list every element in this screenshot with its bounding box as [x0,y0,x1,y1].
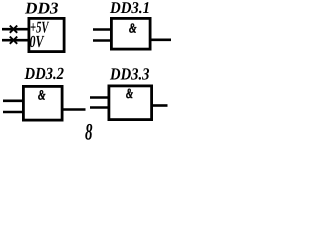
wire DD3.2 input 2 [3,111,23,114]
wire DD3.1 input 1 [93,28,111,31]
svg-text:0V: 0V [30,32,45,51]
svg-text:&: & [126,87,133,102]
wire DD3.3 input 2 [90,106,109,109]
wire DD3 pin +5V [2,28,29,31]
AND gate DD3.2 [23,86,62,120]
svg-text:&: & [129,20,137,35]
AND gate DD3.1 [111,18,150,49]
svg-text:&: & [38,88,46,103]
wire DD3 pin 0V [2,39,29,42]
svg-text:8: 8 [85,120,93,144]
wire DD3.2 output [63,108,86,111]
AND gate DD3.3 [109,86,152,120]
svg-text:DD3.2: DD3.2 [24,64,65,83]
wire DD3.3 input 1 [90,96,109,99]
wire DD3.2 input 1 [3,100,23,103]
wire DD3.3 output [152,104,168,107]
wire DD3.1 output [151,38,171,41]
wire DD3.1 input 2 [93,39,111,42]
svg-text:DD3: DD3 [24,0,59,17]
svg-text:DD3.1: DD3.1 [109,0,150,17]
non-connection cross on +5V pin [10,26,17,33]
non-connection cross on 0V pin [10,37,17,44]
IC power block DD3 [29,18,64,51]
svg-text:DD3.3: DD3.3 [109,64,150,83]
